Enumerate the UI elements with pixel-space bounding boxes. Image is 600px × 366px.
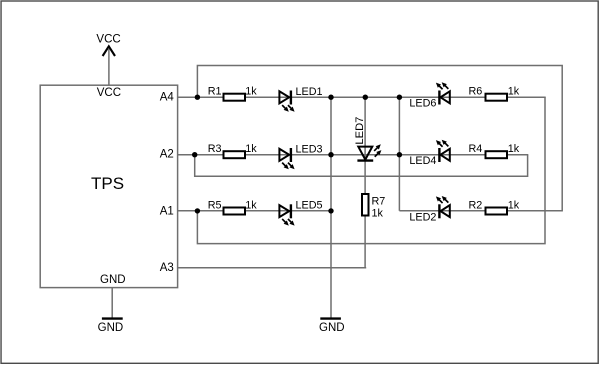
svg-text:TPS: TPS <box>91 174 124 193</box>
svg-text:LED3: LED3 <box>296 143 323 155</box>
ground symbol under TPS <box>98 288 124 335</box>
svg-text:1k: 1k <box>245 86 257 98</box>
svg-text:GND: GND <box>319 322 345 334</box>
LED LED5 <box>279 200 322 226</box>
svg-text:LED1: LED1 <box>296 86 323 98</box>
node LED1 cathode <box>328 95 333 100</box>
svg-text:LED4: LED4 <box>409 155 436 167</box>
svg-text:LED7: LED7 <box>354 117 366 145</box>
svg-text:GND: GND <box>100 274 126 286</box>
node LED7 anode <box>363 95 368 100</box>
svg-text:1k: 1k <box>508 86 520 98</box>
LED LED3 <box>279 143 322 169</box>
wire row A2 <box>178 154 529 156</box>
resistor R1 <box>208 86 258 101</box>
svg-text:LED2: LED2 <box>409 211 436 223</box>
resistor R6 <box>468 86 519 101</box>
LED LED4 <box>409 140 449 168</box>
IC TPS box <box>40 85 177 287</box>
resistor R2 <box>468 199 519 214</box>
svg-text:VCC: VCC <box>97 87 121 99</box>
svg-text:R7: R7 <box>372 196 386 208</box>
node LED3 cathode <box>328 152 333 157</box>
node A1 junction <box>195 208 200 213</box>
svg-text:R6: R6 <box>468 86 482 98</box>
VCC supply symbol <box>96 33 120 85</box>
svg-text:GND: GND <box>98 322 124 334</box>
wire row LED2 <box>399 210 563 212</box>
svg-text:A4: A4 <box>160 92 175 104</box>
resistor R5 <box>208 199 258 214</box>
node right column top <box>397 95 402 100</box>
wire loop A2 to R4 <box>195 155 528 177</box>
wire right cathode column <box>398 97 400 211</box>
svg-text:R2: R2 <box>468 199 482 211</box>
LED LED7 <box>354 117 382 161</box>
wire row A4 <box>178 96 546 98</box>
LED LED6 <box>409 82 449 109</box>
LED LED1 <box>279 86 322 112</box>
wire row A3 <box>178 267 367 269</box>
node A4 junction <box>195 95 200 100</box>
wire loop A1 to R6 <box>197 97 545 243</box>
svg-text:1k: 1k <box>245 143 257 155</box>
svg-text:1k: 1k <box>245 199 257 211</box>
svg-text:R5: R5 <box>208 199 222 211</box>
svg-text:LED6: LED6 <box>409 98 436 110</box>
LED LED2 <box>409 196 449 223</box>
svg-text:A3: A3 <box>160 262 174 274</box>
svg-text:R4: R4 <box>468 143 482 155</box>
svg-text:A2: A2 <box>160 149 174 161</box>
resistor R3 <box>208 143 258 158</box>
svg-text:VCC: VCC <box>96 33 120 45</box>
svg-text:1k: 1k <box>508 199 520 211</box>
svg-text:A1: A1 <box>160 205 174 217</box>
wire top loop A4 to R2 <box>197 66 562 211</box>
node LED4 cathode <box>397 152 402 157</box>
wire row A1 <box>178 210 332 212</box>
svg-text:1k: 1k <box>508 143 520 155</box>
wire ground column <box>330 97 332 319</box>
svg-text:R3: R3 <box>208 143 222 155</box>
node LED5 cathode <box>328 208 333 213</box>
svg-text:LED5: LED5 <box>296 200 323 212</box>
svg-text:R1: R1 <box>208 86 222 98</box>
node A2 junction <box>192 152 197 157</box>
wire LED7 R7 column <box>364 97 366 268</box>
svg-text:1k: 1k <box>372 207 384 219</box>
ground symbol middle <box>319 319 345 335</box>
resistor R4 <box>468 143 519 158</box>
resistor R7 <box>362 194 385 219</box>
